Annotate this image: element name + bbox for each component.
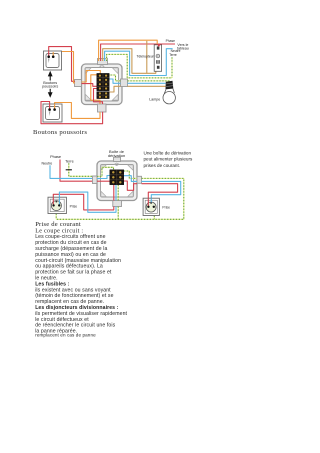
wire green bottom tab down (yellow base) bbox=[117, 207, 119, 220]
wire orange button1 return bbox=[53, 52, 75, 83]
svg-text:Neutre: Neutre bbox=[42, 161, 53, 165]
box J2 interior green right (yellow base) bbox=[124, 171, 137, 178]
push button S1 bbox=[44, 51, 62, 70]
wire terre bus (green dashes) bbox=[56, 178, 184, 219]
wire terre feed (green dashes) bbox=[69, 163, 93, 176]
red junction triangle on telerupteur top bbox=[157, 44, 161, 47]
svg-text:Prise: Prise bbox=[70, 204, 78, 208]
box J2 interior blue down bbox=[115, 185, 117, 201]
wire blue to outlet2 bbox=[142, 181, 181, 203]
wire red to outlet2 bbox=[142, 184, 178, 204]
wire green stub outlet2 (dashes) bbox=[153, 216, 155, 220]
svg-text:Boutons poussoirs: Boutons poussoirs bbox=[33, 129, 87, 136]
paragraph lines bbox=[35, 234, 127, 334]
box J2 interior green down (yellow base) bbox=[117, 185, 119, 201]
wire terre vertical right (yellow base) bbox=[171, 57, 173, 78]
box J1 interior wires orange loop2 bbox=[91, 75, 100, 104]
wire red button2 feed bbox=[41, 102, 103, 124]
wire terre bus (yellow base) bbox=[56, 178, 184, 219]
box J1 interior wire green (yellow base) bbox=[109, 75, 120, 81]
annotation une boite de derivation bbox=[144, 150, 193, 168]
wire green stub outlet2 (yellow base) bbox=[153, 216, 155, 220]
wire navette orange box top to telerupteur top bbox=[99, 40, 158, 61]
junction box J2 body bbox=[97, 161, 137, 201]
svg-text:Phase: Phase bbox=[50, 154, 61, 159]
box J2 interior green down (dashes) bbox=[117, 185, 119, 201]
wire orange button2 return bbox=[55, 103, 100, 119]
wire retour lampe tan right tab to lamp bbox=[128, 85, 166, 87]
wire navette tan vertical bbox=[146, 41, 148, 73]
box J2 interior red left bbox=[97, 180, 110, 182]
wire red button1 feed bbox=[49, 47, 75, 82]
box J1 interior wire green (dashes) bbox=[109, 75, 120, 81]
wire terre right tab to lamp (yellow base) bbox=[128, 80, 171, 82]
terminal strip J1 upper bbox=[97, 73, 109, 90]
terminal block J2 bbox=[110, 170, 124, 185]
wire terre box to tableau (green dashes) bbox=[107, 54, 172, 78]
svg-text:Prise de courant: Prise de courant bbox=[35, 221, 81, 228]
telerupteur U1 bbox=[154, 45, 161, 72]
junction box J1 top tab bbox=[98, 59, 108, 65]
box J1 interior wire red bbox=[82, 84, 97, 87]
box J2 interior green loop (dashes) bbox=[97, 167, 114, 176]
box J1 interior wire blue bbox=[109, 79, 120, 83]
junction box J1 body bbox=[82, 64, 123, 105]
box J2 interior blue left bbox=[97, 176, 110, 179]
outlet P2 bbox=[143, 198, 159, 215]
svg-text:prises de courant.: prises de courant. bbox=[144, 163, 181, 168]
box J2 interior blue right bbox=[124, 176, 137, 182]
wire green stub outlet1 (dashes) bbox=[55, 214, 57, 220]
wire neutre feed blue bbox=[50, 165, 93, 178]
double arrow between buttons bbox=[48, 71, 53, 98]
box J2 interior red right bbox=[124, 181, 137, 190]
wire green bottom tab down (dashes) bbox=[117, 207, 119, 220]
lamp L1 socket bbox=[166, 81, 174, 90]
wire terre feed (yellow base) bbox=[69, 163, 93, 176]
box J1 interior wire tan bbox=[109, 86, 120, 92]
box J2 interior green loop (yellow base) bbox=[97, 167, 114, 176]
svg-text:Terre: Terre bbox=[65, 160, 74, 164]
svg-text:remplacent en cas de panne: remplacent en cas de panne bbox=[35, 332, 96, 337]
box J2 interior red down bbox=[113, 185, 115, 201]
svg-text:Une boîte de dérivation: Une boîte de dérivation bbox=[144, 150, 192, 155]
junction box J2 top tab bbox=[114, 157, 121, 161]
svg-text:poussoirs: poussoirs bbox=[42, 85, 58, 89]
junction box J1 bottom tab bbox=[98, 104, 107, 112]
junction box J2 left tab bbox=[93, 176, 98, 184]
svg-text:dérivation: dérivation bbox=[108, 153, 125, 158]
wire terre box to tableau (yellow base) bbox=[107, 54, 172, 78]
wire terre right tab to lamp (green dashes) bbox=[128, 80, 171, 82]
label vers le tableau bbox=[177, 43, 189, 51]
push button S2 bbox=[43, 104, 62, 122]
box J2 interior green right (dashes) bbox=[124, 171, 137, 178]
lamp L1 bulb bbox=[163, 89, 175, 104]
wire red to outlet1 bbox=[53, 194, 114, 210]
svg-text:Phase: Phase bbox=[166, 39, 176, 43]
wire phase red from box top to tableau bbox=[101, 44, 175, 61]
wire terre vertical right (green dashes) bbox=[171, 57, 173, 78]
svg-text:Terre: Terre bbox=[169, 53, 177, 57]
box J1 interior wire red2 bbox=[94, 89, 103, 105]
junction box J1 left tab bbox=[75, 80, 82, 87]
wire neutre blue box to tableau bbox=[105, 49, 173, 76]
caption boite de derivation bbox=[108, 149, 125, 158]
wire green stub outlet1 (yellow base) bbox=[55, 214, 57, 220]
junction box J2 right tab bbox=[137, 176, 142, 183]
terminal strip J1 lower bbox=[97, 92, 109, 99]
earth tick on terre feed bbox=[66, 169, 72, 171]
wire blue to outlet1 bbox=[59, 192, 116, 212]
svg-text:Lampe: Lampe bbox=[149, 98, 160, 102]
wire navette tan box to telerupteur bottom bbox=[103, 49, 156, 74]
junction box J1 right tab bbox=[121, 79, 128, 87]
box J1 interior wires orange loop bbox=[82, 71, 101, 83]
junction box J2 bottom tab bbox=[113, 201, 122, 207]
svg-text:Prise: Prise bbox=[162, 206, 170, 210]
label boutons between arrows bbox=[42, 81, 58, 89]
wire neutre right tab to lamp bbox=[128, 82, 166, 84]
svg-text:Télérupteur: Télérupteur bbox=[136, 55, 154, 59]
wire phase feed red bbox=[60, 160, 93, 182]
label telerupteur bbox=[136, 55, 154, 59]
outlet P1 bbox=[48, 197, 66, 213]
svg-text:peut alimenter plusieurs: peut alimenter plusieurs bbox=[144, 157, 193, 162]
